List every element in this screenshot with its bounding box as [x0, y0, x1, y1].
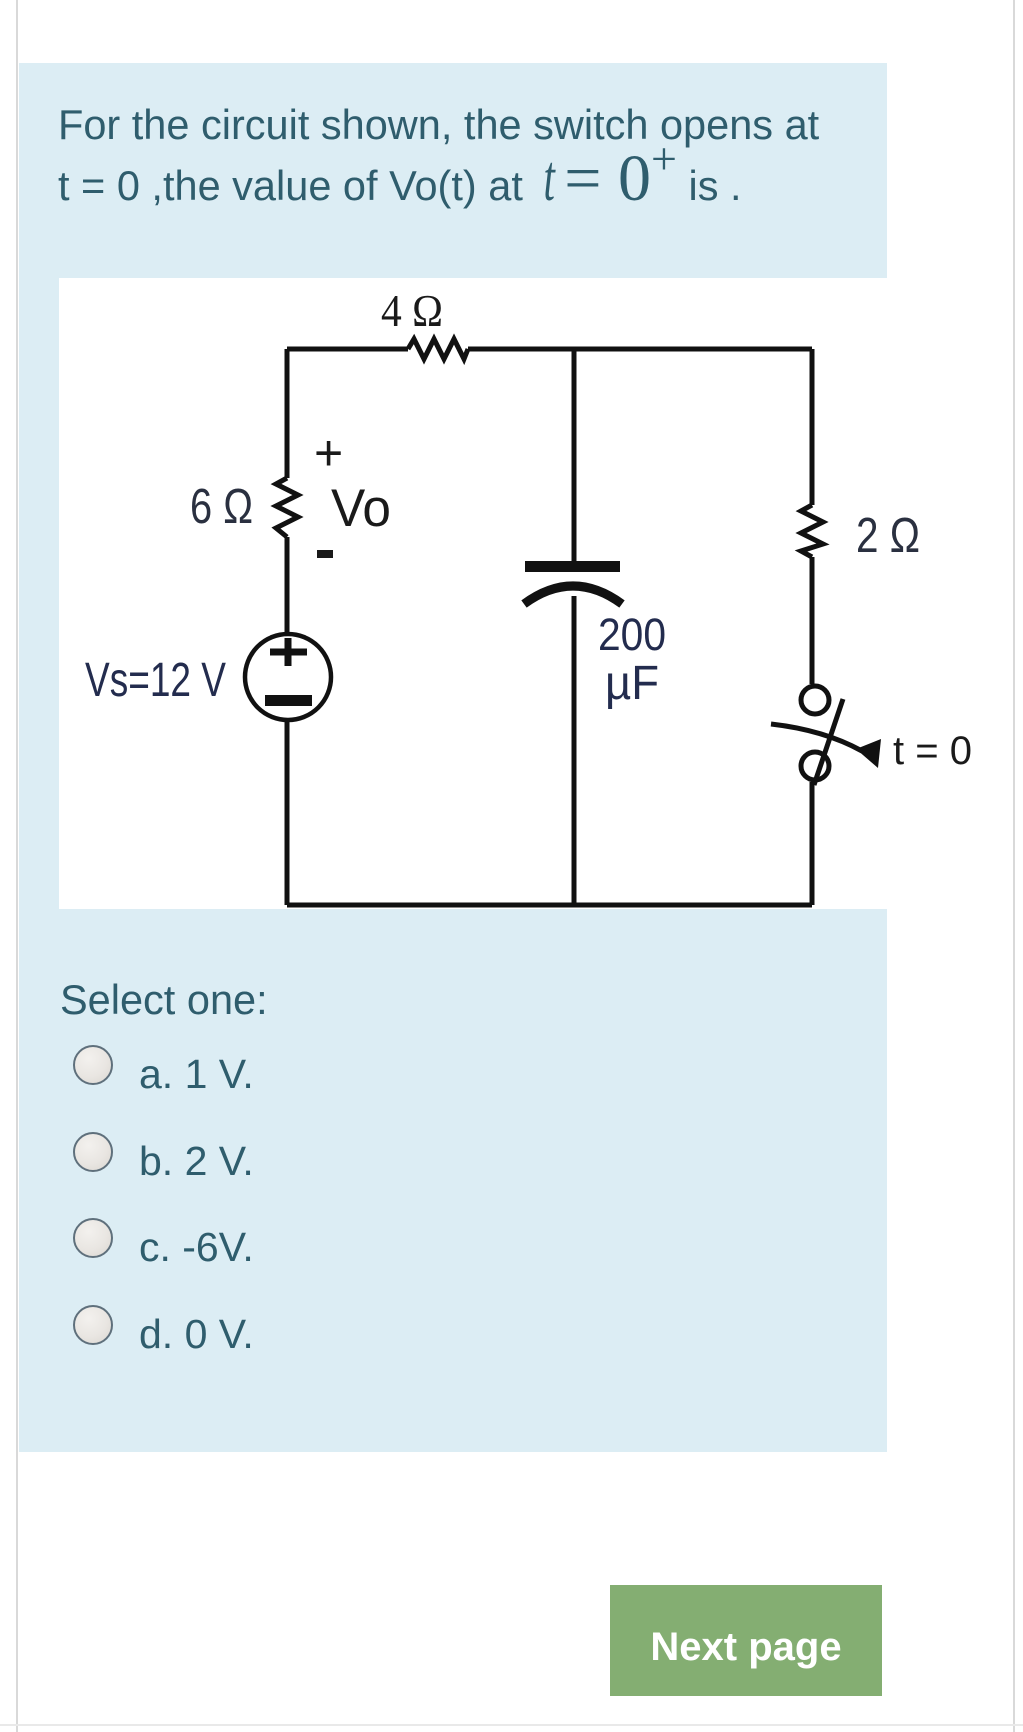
svg-text:2 Ω: 2 Ω — [856, 509, 920, 563]
svg-text:6 Ω: 6 Ω — [190, 480, 253, 534]
svg-text:Vs=12 V: Vs=12 V — [85, 654, 226, 707]
svg-text:Vo: Vo — [331, 479, 391, 538]
svg-text:4 Ω: 4 Ω — [381, 286, 443, 336]
svg-text:t = 0: t = 0 — [893, 729, 972, 773]
svg-text:µF: µF — [605, 657, 659, 710]
svg-text:200: 200 — [598, 609, 666, 660]
svg-text:+: + — [314, 425, 343, 481]
